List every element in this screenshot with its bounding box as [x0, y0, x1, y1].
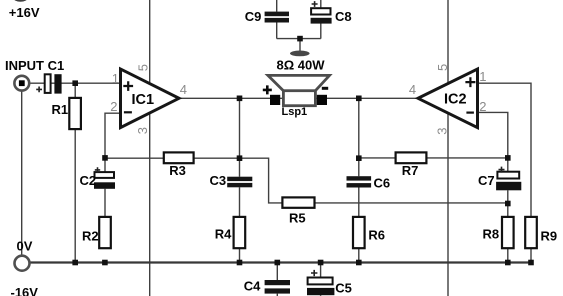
svg-text:4: 4: [180, 82, 187, 97]
svg-text:R4: R4: [215, 226, 232, 241]
terminal INPUT jack: [14, 76, 29, 91]
svg-text:2: 2: [110, 99, 117, 114]
svg-text:C3: C3: [210, 173, 227, 188]
wire R7 to IC2 pin2 node: [426, 157, 507, 159]
op-amp IC2: [418, 69, 478, 128]
svg-text:R9: R9: [541, 229, 558, 244]
svg-text:3: 3: [135, 127, 150, 134]
wire C4 branch: [276, 263, 278, 296]
wire C6 branch: [358, 98, 360, 262]
svg-text:R7: R7: [402, 163, 419, 178]
resistor R6: [353, 217, 365, 248]
wire output node vertical: [239, 98, 241, 158]
wire IC1 output to IC2 output (main): [179, 97, 418, 99]
wire C2 node to R3: [105, 157, 164, 159]
wire input jack sleeve to 0V: [21, 92, 23, 256]
op-amp IC1: [121, 69, 180, 128]
wire 0V rail: [30, 261, 533, 263]
wire C7 to R8: [507, 158, 509, 263]
svg-text:R2: R2: [82, 228, 99, 243]
wire C2 leads: [104, 158, 106, 217]
resistor R1: [69, 98, 81, 129]
svg-text:1: 1: [479, 69, 486, 84]
svg-text:Lsp1: Lsp1: [282, 106, 308, 118]
svg-text:5: 5: [435, 64, 450, 71]
capacitor C7: [496, 167, 521, 191]
svg-text:C5: C5: [335, 281, 352, 296]
resistor R8: [502, 217, 514, 248]
capacitor C2: [94, 167, 115, 189]
resistor R7: [396, 152, 427, 163]
resistor R9: [525, 217, 537, 248]
wire R3 to output node: [194, 157, 240, 159]
resistor R2: [99, 217, 111, 248]
wire IC1 power vertical (pin 5 / pin 3): [149, 0, 151, 296]
svg-text:R1: R1: [52, 102, 69, 117]
wire C3 branch: [239, 158, 241, 262]
svg-text:R3: R3: [169, 163, 186, 178]
wire IC2 power vertical (pin 5 / pin 3): [447, 0, 449, 296]
svg-text:-16V: -16V: [11, 285, 39, 296]
junction nodes: [72, 36, 533, 266]
svg-text:3: 3: [435, 128, 450, 135]
capacitor C5: [307, 270, 334, 295]
wire IC2 pin 1 to R9: [478, 83, 532, 262]
svg-text:R6: R6: [368, 227, 385, 242]
wire IC1 pin 2 stub: [105, 113, 121, 158]
svg-text:2: 2: [479, 99, 486, 114]
wire C9/C8 to ground: [277, 39, 321, 51]
wire C8 branch: [320, 0, 322, 39]
svg-text:C6: C6: [374, 175, 391, 190]
svg-text:1: 1: [112, 71, 119, 86]
wire C5 branch: [320, 263, 322, 296]
ground: [290, 51, 310, 57]
svg-text:+16V: +16V: [9, 5, 40, 20]
svg-text:C8: C8: [335, 9, 352, 24]
capacitor C1: [36, 74, 61, 93]
wire C6 node to R7: [359, 157, 396, 159]
wire R1 branch: [74, 83, 76, 262]
capacitor C6: [347, 176, 372, 187]
svg-text:INPUT C1: INPUT C1: [5, 58, 64, 73]
wire C9 branch: [276, 0, 278, 39]
wire IC2 pin 2 stub: [478, 112, 508, 157]
svg-text:0V: 0V: [17, 239, 33, 254]
svg-text:IC1: IC1: [132, 92, 155, 108]
capacitor C9: [265, 12, 289, 23]
svg-text:R5: R5: [289, 210, 306, 225]
svg-text:C2: C2: [80, 173, 97, 188]
resistor R3: [164, 152, 194, 163]
capacitor C8: [311, 1, 332, 23]
svg-text:4: 4: [409, 82, 416, 97]
speaker Lsp1: [263, 75, 330, 105]
svg-text:C9: C9: [245, 9, 262, 24]
wire bend to R5: [240, 158, 283, 203]
terminal 0V: [15, 256, 30, 271]
wire R5 to C7/R8 node: [314, 202, 508, 204]
svg-text:IC2: IC2: [444, 92, 467, 108]
svg-text:8Ω 40W: 8Ω 40W: [277, 58, 326, 73]
capacitor C3: [227, 177, 252, 188]
svg-text:C7: C7: [478, 173, 495, 188]
resistor R4: [234, 217, 246, 248]
svg-text:5: 5: [136, 64, 151, 71]
capacitor C4: [265, 280, 290, 294]
wire input to IC1 pin 1: [30, 82, 120, 84]
resistor R5: [282, 197, 314, 207]
terminal +16V: [13, 0, 27, 2]
svg-text:R8: R8: [483, 227, 500, 242]
svg-text:C4: C4: [244, 278, 261, 293]
